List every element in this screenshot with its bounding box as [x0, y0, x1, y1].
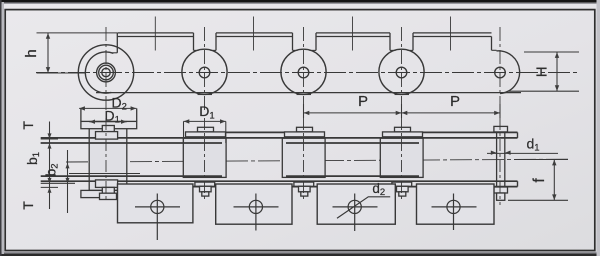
pin2 plan caps: [186, 127, 226, 196]
pin4 plan caps: [383, 127, 423, 196]
bolt hole of attachment A4: [447, 200, 460, 213]
mid-pitch vertical centerlines (top ticks): [155, 17, 450, 51]
chain centerline (dash-dot): [36, 72, 580, 74]
end link plate rounded nose: [497, 51, 520, 94]
flanged roller R1 flange circle (dia D2): [78, 45, 133, 100]
stray left line: [69, 173, 140, 175]
pin5 plan (pin + caps): [494, 126, 508, 200]
plate top edge double lines: [117, 33, 491, 37]
pin1 plan details (flange disks, bushing, caps): [81, 108, 137, 199]
pin P3: [298, 67, 309, 78]
d1 dimension pin5: [487, 152, 558, 154]
svg-text:h: h: [23, 49, 40, 57]
bolt hole of attachment A2: [249, 200, 262, 213]
roller bottom nubs: [198, 94, 410, 96]
svg-text:P: P: [358, 93, 368, 110]
pin P2: [199, 67, 210, 78]
roller R3: [281, 49, 326, 94]
plate end verticals at right: [517, 132, 519, 138]
pin P1: [102, 68, 110, 76]
D1 dimension pin1: [89, 121, 127, 123]
H dimension: [509, 52, 579, 91]
top dark edge: [0, 0, 600, 3]
bolt hole of attachment A3: [348, 200, 361, 213]
bottom dark edge: [0, 253, 600, 256]
attachment plate A4: [417, 184, 495, 224]
pin P4: [396, 67, 407, 78]
attachment plate A2: [216, 184, 292, 224]
plate strips: [41, 132, 518, 186]
svg-text:T: T: [20, 201, 36, 210]
roller R2: [182, 49, 227, 94]
centerline cross of hole A2: [234, 206, 279, 208]
f dimension: [508, 160, 568, 201]
attachment plate A1: [118, 184, 193, 223]
roller R1 body arc (dia D1): [85, 52, 113, 93]
notch verticals: [117, 33, 491, 53]
plan centerline: [66, 159, 568, 162]
pin3 plan caps: [285, 127, 325, 196]
svg-text:P: P: [450, 93, 460, 110]
pin vertical centerlines (plan): [106, 118, 500, 205]
P dimensions: [304, 104, 501, 118]
right edge shade: [597, 0, 600, 256]
svg-text:f: f: [531, 178, 548, 183]
roller bodies (behind strips): [89, 122, 423, 191]
bolt hole of attachment A1: [151, 200, 164, 213]
svg-text:H: H: [534, 66, 551, 77]
T b1 b2 left stack: [41, 122, 75, 214]
pin P5: [495, 67, 506, 78]
plate bottom edge: [96, 92, 521, 94]
centerline cross of hole A4: [432, 206, 477, 208]
D2 dimension pin1: [79, 107, 136, 109]
left dark edge: [0, 0, 2, 256]
leader slash for hole diameter d2: [337, 197, 390, 218]
h dimension: [37, 33, 118, 73]
centerline cross of hole A3: [333, 206, 378, 208]
attachment plate A3: [317, 184, 395, 224]
bushing B1: [97, 63, 116, 82]
svg-text:T: T: [20, 121, 36, 130]
D1 dimension pin2: [184, 121, 226, 143]
notch bottom nubs: [113, 50, 497, 53]
pin vertical centerlines: [106, 27, 500, 118]
roller R4: [379, 49, 424, 94]
centerline cross of hole A1: [135, 206, 180, 208]
